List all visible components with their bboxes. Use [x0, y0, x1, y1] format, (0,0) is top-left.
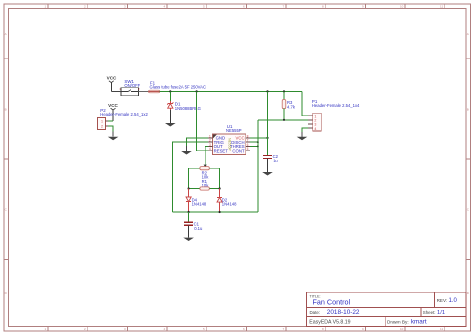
- svg-text:1: 1: [101, 120, 103, 124]
- diode D4: [186, 197, 191, 212]
- U1 pin 1 GND stub: [208, 137, 212, 139]
- ground under D1: [165, 123, 176, 127]
- wire rail down through C2 node: [267, 91, 269, 155]
- wire TRIG to cap node: [172, 142, 208, 212]
- diode D2: [217, 198, 222, 213]
- junction R3 bottom: [283, 119, 285, 121]
- frame ruler ticks bottom: [48, 326, 445, 330]
- fuse F1: [149, 90, 160, 93]
- ground at U1 GND: [186, 146, 188, 151]
- junction THRES: [257, 145, 259, 147]
- svg-text:Header-Female 2.54_1x4: Header-Female 2.54_1x4: [312, 103, 360, 108]
- svg-text:NE555P: NE555P: [226, 128, 242, 133]
- svg-text:EasyEDA V5.8.19: EasyEDA V5.8.19: [309, 319, 350, 325]
- wire SW1 to F1: [139, 90, 149, 92]
- resistor R2: [189, 167, 220, 170]
- wire node to P1 pin2: [258, 119, 308, 121]
- svg-text:B: B: [467, 108, 469, 112]
- U1 pin 5 CONT stub: [246, 150, 250, 152]
- U1 pin 2 TRIG stub: [208, 141, 212, 143]
- junction at D1 on rail: [169, 90, 171, 92]
- svg-text:Date:: Date:: [310, 310, 321, 315]
- junction R1 left: [188, 187, 190, 189]
- svg-text:1N4148: 1N4148: [222, 202, 237, 207]
- svg-text:2018-10-22: 2018-10-22: [327, 309, 360, 316]
- junction at C2 wire on rail: [266, 90, 268, 92]
- svg-text:Glass tube fuse2A 5F 250VAC: Glass tube fuse2A 5F 250VAC: [150, 85, 207, 90]
- svg-text:5: 5: [247, 147, 249, 151]
- junction at RESET wire on rail: [196, 90, 198, 92]
- svg-text:REV:: REV:: [437, 298, 448, 303]
- frame ruler ticks top: [48, 4, 445, 8]
- svg-text:A: A: [467, 32, 469, 36]
- wire THRES to node: [250, 145, 258, 147]
- svg-text:4: 4: [314, 127, 316, 131]
- header P2: [97, 117, 108, 129]
- wire bottom cap rail: [172, 211, 257, 213]
- U1 pin 1 marker wedge: [213, 135, 217, 139]
- junction DISCH: [257, 141, 259, 143]
- frame ruler ticks left: [4, 59, 9, 260]
- svg-text:Drawn By:: Drawn By:: [387, 319, 409, 324]
- svg-text:kmart: kmart: [411, 318, 427, 325]
- wire rail to D1: [169, 91, 171, 101]
- ground under C1: [183, 238, 194, 241]
- U1 pin 6 THRES stub: [246, 145, 250, 147]
- svg-text:A: A: [5, 32, 7, 36]
- U1 pin 3 OUT stub: [208, 145, 212, 147]
- wire RESET to rail: [197, 91, 209, 150]
- svg-text:1u: 1u: [273, 158, 277, 163]
- wire rail to C1: [188, 212, 190, 222]
- svg-text:2: 2: [101, 125, 103, 129]
- header P1: [308, 113, 321, 131]
- switch SW1: [121, 88, 139, 96]
- wire R2 left down to R1: [188, 168, 190, 188]
- diode D1 (zener): [167, 101, 173, 110]
- svg-text:1/1: 1/1: [437, 310, 445, 316]
- wire R1 left to D4: [188, 189, 190, 198]
- svg-text:1.0: 1.0: [449, 298, 458, 304]
- wire R1 right to D2: [219, 189, 221, 198]
- svg-text:VCC: VCC: [107, 76, 117, 81]
- svg-text:11: 11: [440, 5, 443, 9]
- wire DISCH to node: [250, 141, 258, 143]
- frame ruler ticks right: [466, 59, 470, 260]
- svg-text:CONT: CONT: [232, 149, 245, 154]
- op-amp U1 body (NE555P): [212, 134, 245, 155]
- wire D1 to ground: [169, 110, 171, 123]
- ground under P1: [301, 132, 303, 137]
- U1 pin 7 DISCH stub: [246, 141, 250, 143]
- svg-text:Fan Control: Fan Control: [313, 297, 351, 306]
- wire node vertical A: [257, 120, 259, 212]
- wire main VCC rail after fuse: [160, 90, 302, 92]
- wire R2 right down to R1: [219, 168, 221, 188]
- resistor R1: [189, 187, 220, 190]
- junction D2 bottom: [219, 211, 221, 213]
- svg-text:11: 11: [440, 327, 443, 331]
- junction OUT at R2: [204, 165, 207, 167]
- net flag VCC (at P2): [108, 103, 118, 121]
- svg-text:B: B: [5, 108, 7, 112]
- title block: [307, 292, 467, 326]
- wire OUT down to R2: [205, 146, 208, 166]
- ground under P2: [112, 132, 114, 137]
- wire C2 to ground: [267, 158, 269, 172]
- wire VCC to SW1: [111, 90, 121, 92]
- junction R1 right: [219, 187, 221, 189]
- resistor R3: [282, 91, 286, 119]
- wire P2 pin1 to VCC: [108, 120, 113, 122]
- wire rail to P1 pin1: [302, 91, 308, 115]
- svg-text:10: 10: [400, 5, 404, 9]
- svg-text:RESET: RESET: [214, 149, 229, 154]
- capacitor C2: [263, 155, 272, 158]
- svg-text:VCC: VCC: [108, 103, 118, 108]
- net flag VCC (top left, at SW1): [107, 76, 117, 92]
- svg-text:10: 10: [400, 327, 404, 331]
- svg-text:4.7k: 4.7k: [287, 104, 296, 109]
- svg-text:4: 4: [209, 147, 211, 151]
- ground under C2: [262, 172, 273, 176]
- junction at R3 on rail: [283, 90, 285, 92]
- U1 pin 8 VCC stub: [246, 137, 250, 139]
- junction VCC pin / C2: [266, 137, 268, 139]
- wire P2 pin2 to ground: [108, 126, 113, 137]
- wire C1 to ground: [188, 225, 190, 237]
- svg-text:0.1u: 0.1u: [194, 226, 203, 231]
- wire P1 pin4 to ground: [302, 128, 308, 137]
- svg-text:Header-Female 2.54_1x2: Header-Female 2.54_1x2: [100, 112, 148, 117]
- capacitor C1: [184, 222, 193, 225]
- svg-text:Sheet:: Sheet:: [423, 310, 436, 315]
- svg-text:ON/OFF: ON/OFF: [124, 83, 140, 88]
- wire GND pin to ground: [187, 138, 209, 151]
- junction C1/D4: [188, 211, 190, 213]
- svg-text:1N4148: 1N4148: [192, 202, 207, 207]
- U1 pin 4 RESET stub: [208, 150, 212, 152]
- wire VCC pin to C2 node: [250, 137, 268, 139]
